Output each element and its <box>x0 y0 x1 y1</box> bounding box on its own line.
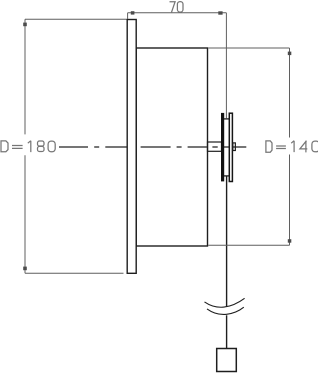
cable line upper segment <box>226 177 228 307</box>
label D=180 text <box>1 141 55 152</box>
D=180 extension line top <box>25 18 127 20</box>
break symbol lower squiggle <box>207 307 244 314</box>
D=180 dimension line (vertical, broken by text) <box>24 19 26 273</box>
flange (front mounting plate, D=180) <box>127 20 136 274</box>
D=140 dimension dot bottom <box>288 239 292 243</box>
body (cylindrical housing, D=140) <box>136 48 207 246</box>
70 extension line right <box>225 13 227 119</box>
terminal plate left disc (filled bar) <box>221 113 224 181</box>
D=180 dimension dot top <box>23 23 27 27</box>
break symbol upper squiggle <box>205 298 245 307</box>
connector plug square <box>217 349 237 372</box>
hub (threaded stud between body and terminal plate) <box>208 142 222 151</box>
cable line lower segment <box>226 315 228 348</box>
70 dimension dot left <box>131 11 135 14</box>
centerline (horizontal dash-dot axis) <box>59 146 246 148</box>
D=140 dimension dot top <box>288 52 292 56</box>
D=180 extension line bottom <box>25 272 124 274</box>
terminal plate right disc (outlined) <box>229 113 232 181</box>
70 dimension dot right <box>218 11 222 14</box>
D=140 dimension line (vertical, broken by text) <box>289 48 291 245</box>
label 70 text <box>170 2 184 13</box>
D=140 extension line top <box>208 47 289 49</box>
label D=140 text <box>266 141 319 153</box>
70 extension line left <box>127 13 129 19</box>
70 dimension line (horizontal) <box>128 12 227 14</box>
stem crossbar top <box>224 118 230 120</box>
D=180 dimension dot bottom <box>23 267 27 271</box>
stem crossbar bottom <box>224 175 230 177</box>
D=140 extension line bottom <box>208 244 289 246</box>
nut on terminal stud <box>233 143 236 151</box>
